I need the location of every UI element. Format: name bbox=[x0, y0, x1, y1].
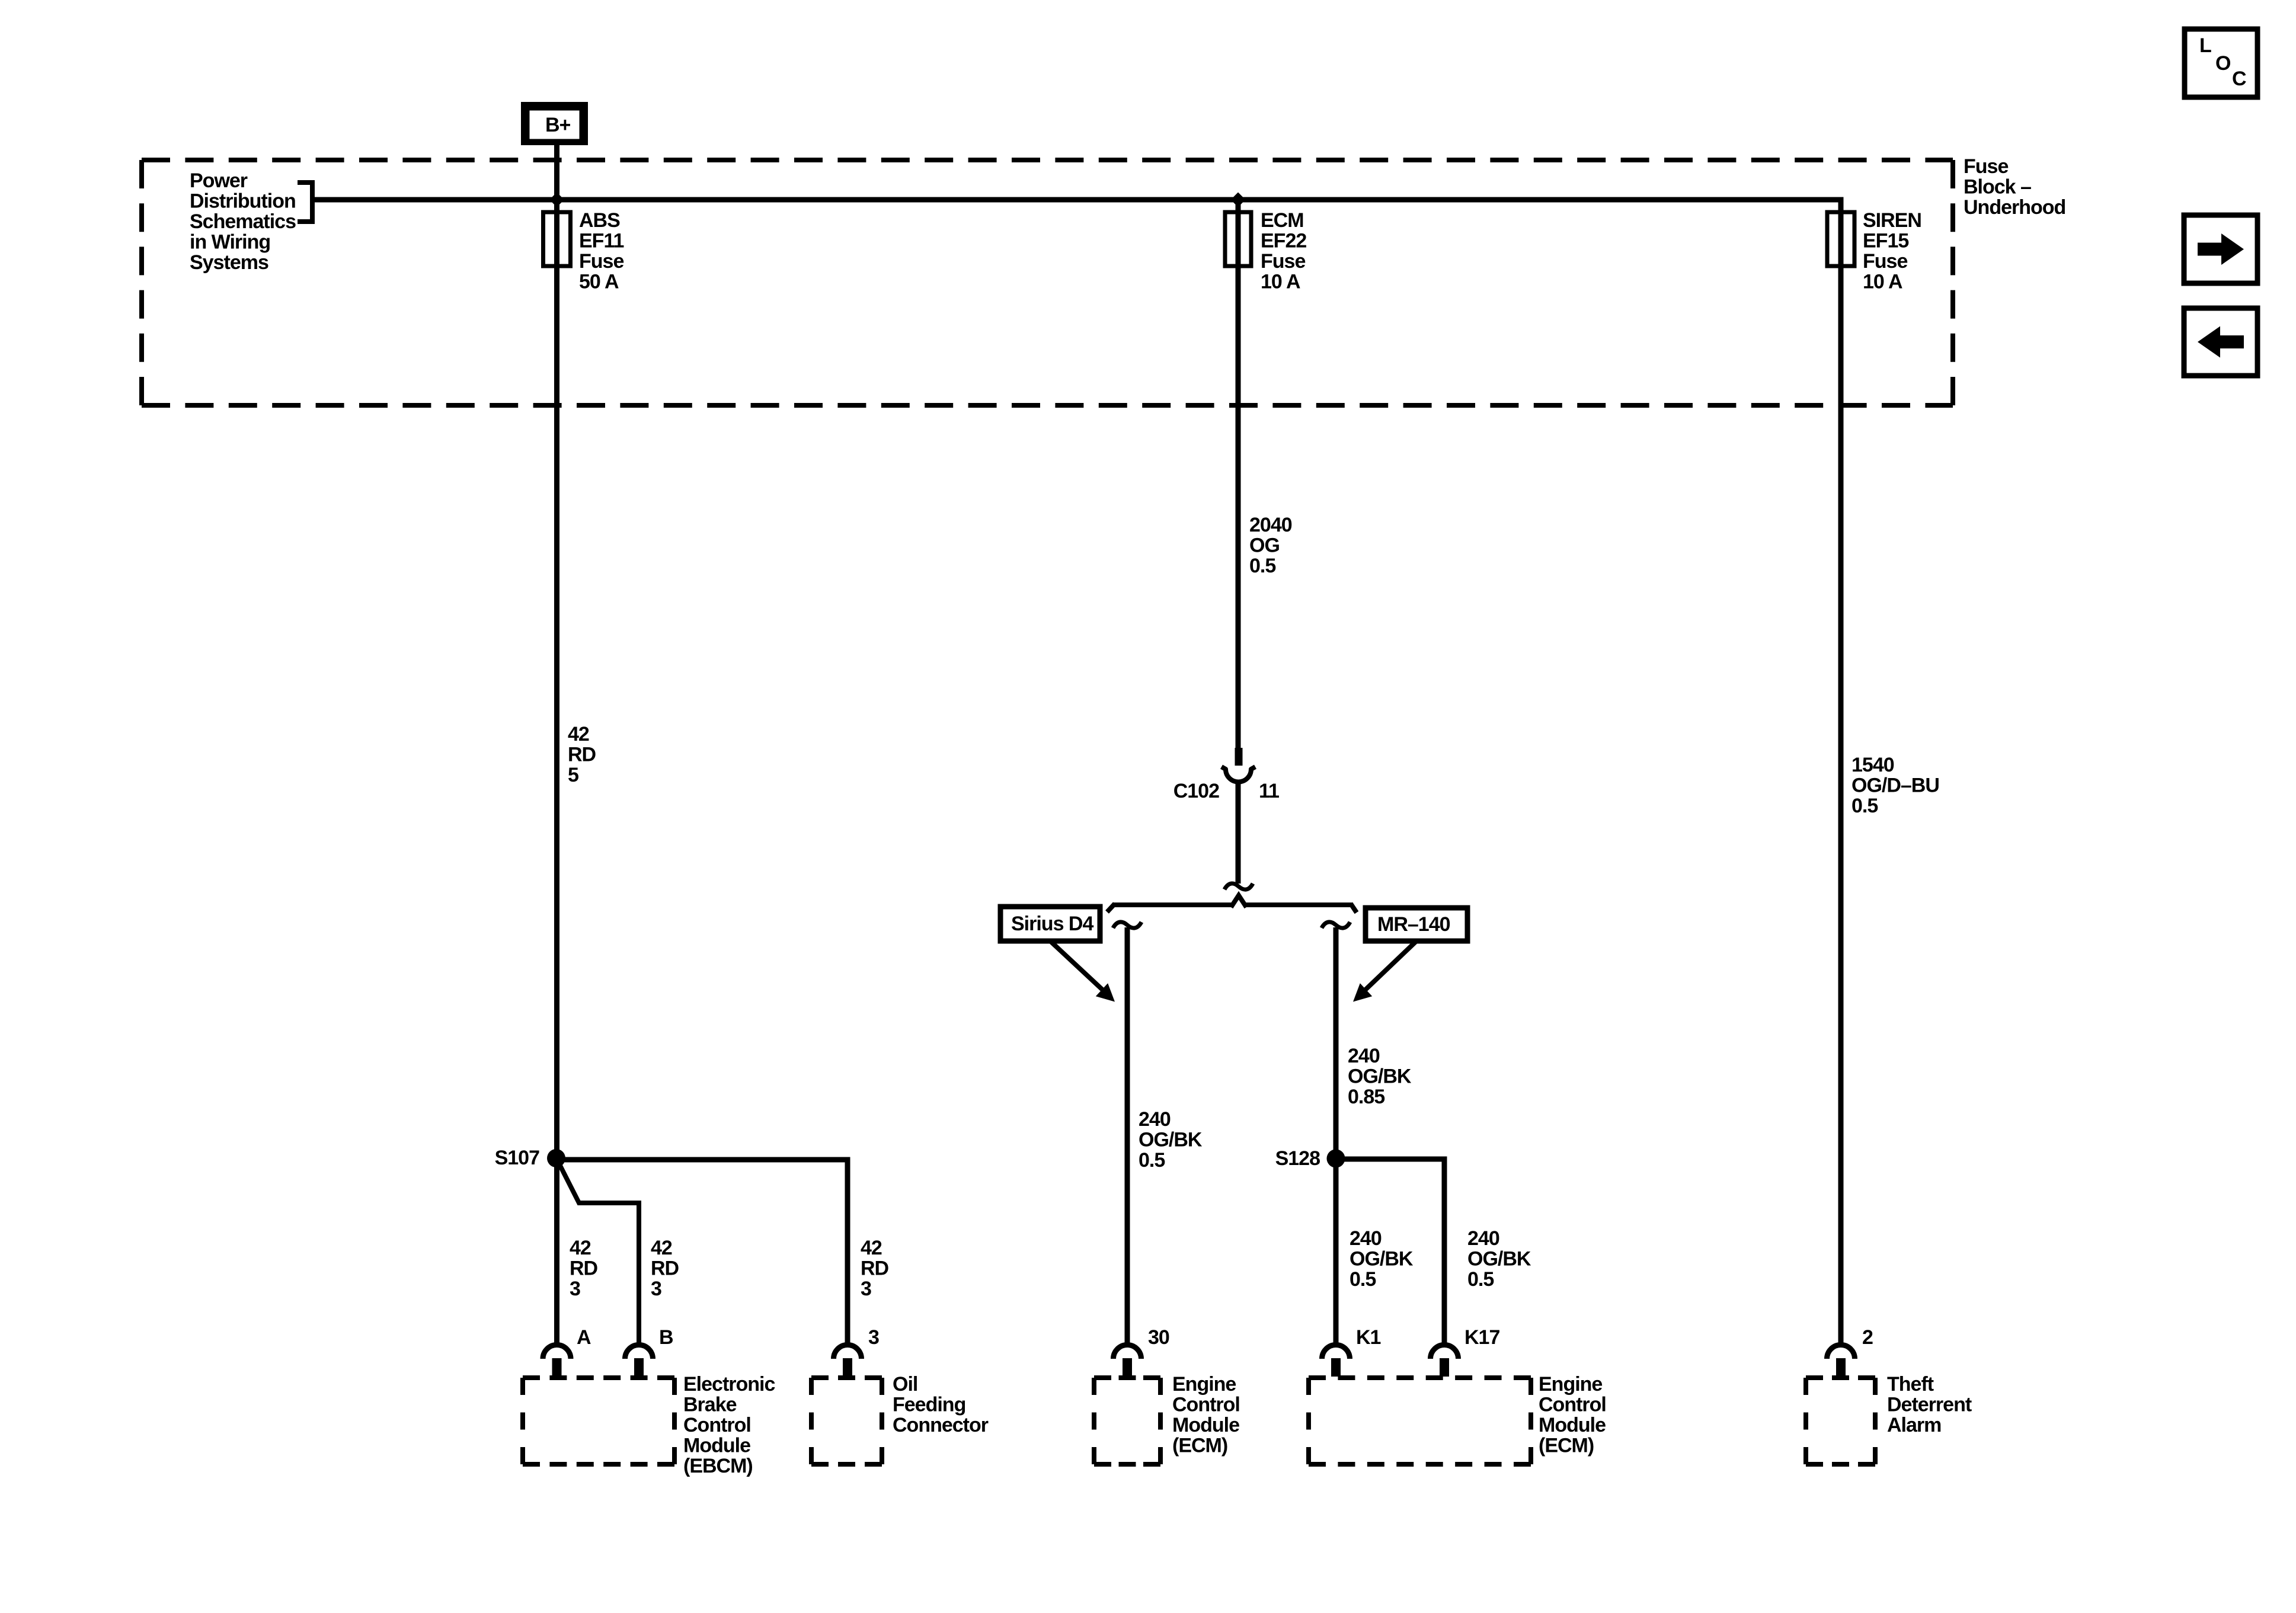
svg-text:42: 42 bbox=[568, 723, 589, 745]
svg-text:ECM: ECM bbox=[1261, 209, 1304, 232]
svg-text:EF15: EF15 bbox=[1863, 230, 1908, 252]
connector terminal ECM pin 30 : half-circle bbox=[1114, 1345, 1141, 1359]
svg-text:Power: Power bbox=[190, 169, 248, 192]
splitter brace left end flick bbox=[1107, 904, 1115, 912]
svg-text:240: 240 bbox=[1139, 1108, 1171, 1131]
connector terminal EBCM pin A : male pin stub bbox=[552, 1358, 562, 1377]
wire: main B+ bus bbox=[312, 197, 1841, 203]
svg-text:3: 3 bbox=[868, 1326, 879, 1349]
svg-text:42: 42 bbox=[861, 1237, 882, 1259]
svg-text:0.5: 0.5 bbox=[1350, 1268, 1376, 1291]
svg-text:Module: Module bbox=[683, 1435, 750, 1457]
svg-text:Fuse: Fuse bbox=[579, 250, 623, 273]
svg-text:RD: RD bbox=[568, 744, 596, 766]
svg-text:in Wiring: in Wiring bbox=[190, 231, 270, 254]
connector terminal EBCM pin A : half-circle bbox=[543, 1345, 571, 1359]
page arrow box left bbox=[2184, 308, 2257, 376]
svg-text:10 A: 10 A bbox=[1261, 271, 1300, 293]
connector terminal ECM pin K17 : half-circle bbox=[1431, 1345, 1459, 1359]
connector terminal ECM pin 30 : male pin stub bbox=[1123, 1358, 1132, 1377]
svg-text:OG/BK: OG/BK bbox=[1348, 1065, 1412, 1088]
svg-text:2: 2 bbox=[1862, 1326, 1873, 1349]
svg-text:Fuse: Fuse bbox=[1964, 155, 2008, 178]
svg-text:30: 30 bbox=[1148, 1326, 1169, 1349]
svg-text:B: B bbox=[659, 1326, 673, 1349]
svg-text:Control: Control bbox=[683, 1414, 751, 1436]
svg-text:Engine: Engine bbox=[1539, 1373, 1602, 1396]
svg-text:Control: Control bbox=[1539, 1394, 1606, 1416]
page arrow box right bbox=[2184, 215, 2257, 283]
svg-text:Sirius D4: Sirius D4 bbox=[1011, 913, 1093, 935]
splitter brace line bbox=[1112, 902, 1353, 907]
wire: S107 right branch to oil feeding connector pin 3 bbox=[557, 1160, 848, 1346]
svg-text:0.85: 0.85 bbox=[1348, 1086, 1384, 1108]
connector terminal theft alarm pin 2 : male pin stub bbox=[1836, 1358, 1846, 1377]
svg-text:Deterrent: Deterrent bbox=[1887, 1394, 1972, 1416]
svg-text:10 A: 10 A bbox=[1863, 271, 1902, 293]
wire break squiggle below C102 bbox=[1224, 884, 1253, 889]
svg-text:OG/BK: OG/BK bbox=[1139, 1129, 1203, 1151]
connector terminal EBCM pin B : male pin stub bbox=[634, 1358, 644, 1377]
wire: bus drop through ECM fuse down to C102 bbox=[1236, 200, 1241, 750]
junction node at B+ / ABS fuse bbox=[549, 193, 564, 207]
note: power distribution schematics in wiring systems bbox=[190, 169, 296, 274]
wire break squiggle on left branch bbox=[1113, 922, 1141, 928]
svg-text:L: L bbox=[2199, 34, 2211, 57]
svg-text:50 A: 50 A bbox=[579, 271, 619, 293]
component box oil feeding connector : dashed outline bbox=[811, 1375, 882, 1380]
fuse block underhood dashed border : right edge bbox=[1950, 160, 1955, 405]
svg-text:S107: S107 bbox=[495, 1147, 539, 1169]
svg-text:A: A bbox=[577, 1326, 591, 1349]
svg-text:3: 3 bbox=[861, 1278, 871, 1300]
svg-text:Distribution: Distribution bbox=[190, 190, 296, 213]
svg-text:OG: OG bbox=[1249, 535, 1280, 557]
svg-text:MR–140: MR–140 bbox=[1377, 913, 1450, 936]
fuse block underhood dashed border : bottom edge bbox=[142, 403, 1953, 408]
svg-text:OG/BK: OG/BK bbox=[1350, 1248, 1414, 1270]
svg-text:Systems: Systems bbox=[190, 251, 268, 274]
svg-text:Underhood: Underhood bbox=[1964, 196, 2065, 219]
splitter brace right end flick bbox=[1351, 904, 1357, 913]
svg-text:Control: Control bbox=[1172, 1394, 1240, 1416]
svg-text:C: C bbox=[2232, 68, 2246, 90]
svg-text:Electronic: Electronic bbox=[683, 1373, 775, 1396]
svg-text:2040: 2040 bbox=[1249, 514, 1292, 536]
svg-text:42: 42 bbox=[570, 1237, 591, 1259]
svg-text:0.5: 0.5 bbox=[1139, 1149, 1165, 1172]
svg-text:1540: 1540 bbox=[1851, 754, 1894, 776]
svg-text:SIREN: SIREN bbox=[1863, 209, 1921, 232]
svg-text:0.5: 0.5 bbox=[1851, 795, 1878, 817]
svg-text:K1: K1 bbox=[1356, 1326, 1381, 1349]
connector terminal oil feeding pin 3 : half-circle bbox=[834, 1345, 862, 1359]
wire: right branch down through S128 to ECM pin K1 bbox=[1334, 927, 1339, 1346]
svg-text:(ECM): (ECM) bbox=[1172, 1435, 1227, 1457]
connector terminal oil feeding pin 3 : male pin stub bbox=[843, 1358, 852, 1377]
component box ECM (pin 30) : dashed outline bbox=[1094, 1375, 1160, 1380]
svg-text:EF22: EF22 bbox=[1261, 230, 1306, 252]
svg-text:Schematics: Schematics bbox=[190, 210, 296, 233]
connector terminal ECM pin K17 : male pin stub bbox=[1440, 1358, 1449, 1377]
svg-text:5: 5 bbox=[568, 764, 578, 786]
junction node at ECM fuse tap bbox=[1231, 193, 1246, 207]
svg-text:240: 240 bbox=[1348, 1045, 1380, 1067]
svg-text:0.5: 0.5 bbox=[1249, 555, 1275, 577]
wire break squiggle on right branch bbox=[1322, 922, 1350, 928]
svg-text:Fuse: Fuse bbox=[1261, 250, 1305, 273]
wire: C102 down to split bbox=[1236, 782, 1241, 884]
svg-text:O: O bbox=[2215, 52, 2231, 75]
splitter brace chevron bbox=[1231, 895, 1246, 907]
wire: S107 diagonal branch to EBCM pin B bbox=[558, 1161, 639, 1346]
LOC page reference box bbox=[2185, 29, 2257, 97]
svg-text:RD: RD bbox=[861, 1257, 889, 1280]
callout arrow from MR-140 bbox=[1366, 941, 1416, 990]
svg-text:Brake: Brake bbox=[683, 1394, 737, 1416]
svg-text:K17: K17 bbox=[1464, 1326, 1499, 1349]
component box ECM (pins K1 K17) : dashed outline bbox=[1309, 1375, 1531, 1380]
svg-text:ABS: ABS bbox=[579, 209, 620, 232]
splice S128 bbox=[1327, 1150, 1345, 1168]
callout box Sirius D4 bbox=[1000, 907, 1100, 941]
power feed B+ symbol box bbox=[521, 102, 588, 145]
svg-text:3: 3 bbox=[570, 1278, 580, 1300]
svg-text:B+: B+ bbox=[545, 114, 571, 136]
svg-text:OG/D–BU: OG/D–BU bbox=[1851, 775, 1939, 797]
svg-text:RD: RD bbox=[651, 1257, 679, 1280]
svg-text:Oil: Oil bbox=[893, 1373, 917, 1396]
svg-text:42: 42 bbox=[651, 1237, 672, 1259]
svg-text:C102: C102 bbox=[1173, 780, 1219, 802]
wire: S128 right branch to ECM pin K17 bbox=[1336, 1159, 1444, 1346]
wire: B+ drop to bus and down through ABS fuse to S107 and EBCM pin A bbox=[554, 145, 559, 1346]
connector terminal ECM pin K1 : male pin stub bbox=[1331, 1358, 1341, 1377]
svg-text:(EBCM): (EBCM) bbox=[683, 1455, 753, 1477]
svg-text:Module: Module bbox=[1172, 1414, 1239, 1436]
connector terminal ECM pin K1 : half-circle bbox=[1322, 1345, 1350, 1359]
callout box MR-140 bbox=[1366, 908, 1467, 941]
svg-text:0.5: 0.5 bbox=[1467, 1268, 1494, 1291]
fuse block underhood dashed border : left edge bbox=[139, 160, 144, 405]
callout arrow from Sirius D4 bbox=[1050, 941, 1102, 990]
svg-text:S128: S128 bbox=[1275, 1147, 1320, 1170]
svg-text:(ECM): (ECM) bbox=[1539, 1435, 1594, 1457]
bracket joining note to bus bbox=[298, 183, 312, 222]
splice S107 bbox=[547, 1149, 565, 1167]
component box theft deterrent alarm : dashed outline bbox=[1806, 1375, 1875, 1380]
fuse ECM EF22 10 A bbox=[1225, 212, 1251, 266]
svg-text:RD: RD bbox=[570, 1257, 598, 1280]
wire: bus right end drop through SIREN fuse down to theft deterrent alarm pin 2 bbox=[1838, 197, 1844, 1346]
connector C102 female terminal cup bbox=[1221, 767, 1255, 782]
connector terminal EBCM pin B : half-circle bbox=[625, 1345, 653, 1359]
svg-text:EF11: EF11 bbox=[579, 230, 623, 252]
svg-text:Block –: Block – bbox=[1964, 176, 2031, 199]
fuse ABS EF11 50 A bbox=[543, 212, 571, 266]
svg-text:240: 240 bbox=[1350, 1227, 1382, 1250]
wire: left branch down to ECM pin 30 bbox=[1125, 927, 1130, 1346]
svg-text:Fuse: Fuse bbox=[1863, 250, 1907, 273]
svg-text:Module: Module bbox=[1539, 1414, 1606, 1436]
svg-text:3: 3 bbox=[651, 1278, 661, 1300]
fuse block underhood dashed border : top edge bbox=[142, 158, 1953, 162]
svg-text:Theft: Theft bbox=[1887, 1373, 1934, 1396]
fuse SIREN EF15 10 A bbox=[1827, 212, 1854, 266]
svg-text:Engine: Engine bbox=[1172, 1373, 1236, 1396]
connector C102 male pin bbox=[1235, 748, 1243, 766]
svg-text:11: 11 bbox=[1259, 780, 1279, 802]
component box EBCM : dashed outline bbox=[523, 1375, 674, 1380]
svg-text:Feeding: Feeding bbox=[893, 1394, 965, 1416]
svg-text:Alarm: Alarm bbox=[1887, 1414, 1941, 1436]
svg-text:OG/BK: OG/BK bbox=[1467, 1248, 1531, 1270]
svg-text:Connector: Connector bbox=[893, 1414, 989, 1436]
connector terminal theft alarm pin 2 : half-circle bbox=[1827, 1345, 1855, 1359]
svg-text:240: 240 bbox=[1467, 1227, 1499, 1250]
